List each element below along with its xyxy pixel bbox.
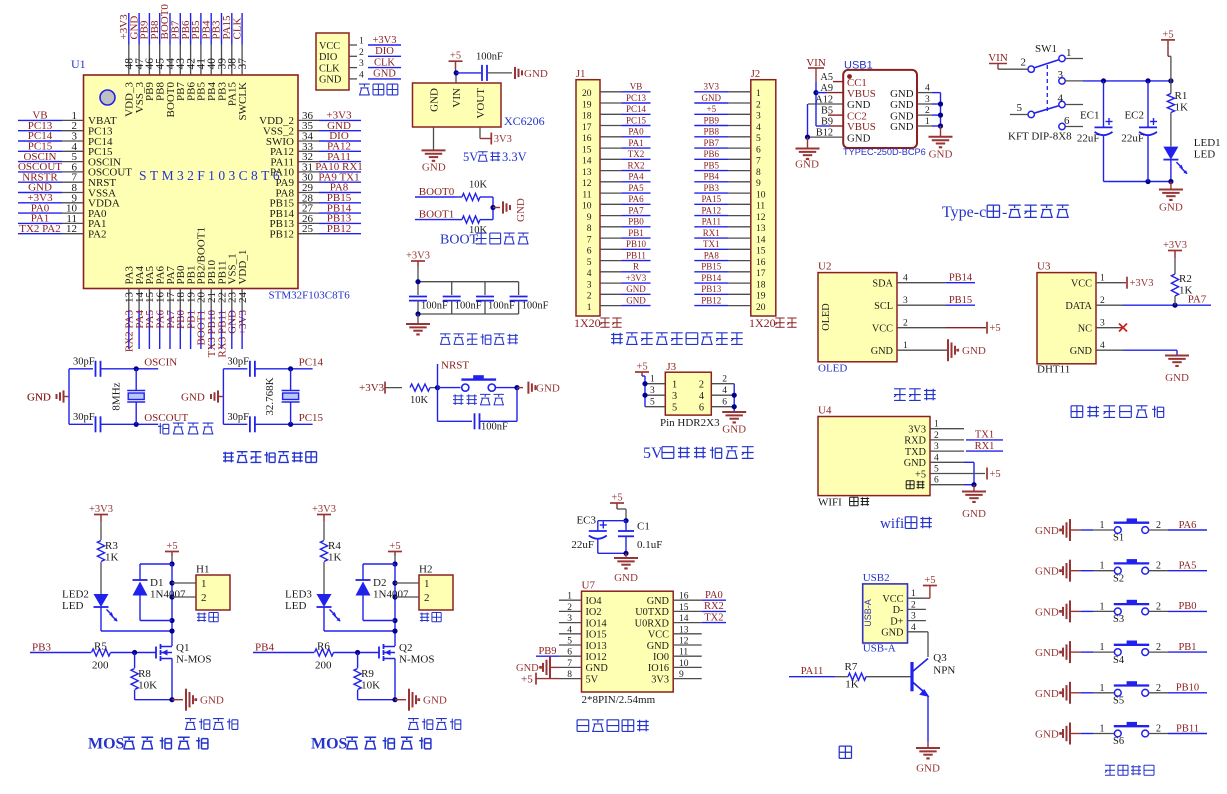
svg-text:LED: LED (62, 600, 83, 612)
svg-text:C1: C1 (637, 521, 650, 533)
svg-text:3V3: 3V3 (908, 425, 926, 436)
svg-text:S5: S5 (1113, 696, 1124, 707)
svg-text:PA15: PA15 (701, 194, 721, 204)
svg-text:PB12: PB12 (270, 229, 294, 241)
svg-text:SCL: SCL (874, 301, 893, 312)
svg-text:R8: R8 (138, 668, 151, 680)
svg-text:PB11: PB11 (626, 250, 646, 260)
svg-text:PA11: PA11 (801, 666, 824, 677)
svg-text:1: 1 (1100, 642, 1105, 653)
svg-text:BOOT: BOOT (440, 233, 479, 248)
svg-text:GND: GND (1035, 729, 1059, 741)
svg-text:DIO: DIO (319, 52, 338, 63)
svg-text:3V3: 3V3 (494, 134, 512, 145)
svg-text:J3: J3 (666, 361, 676, 373)
svg-text:+3V3: +3V3 (1163, 240, 1187, 251)
svg-text:9: 9 (587, 213, 592, 223)
svg-text:2*8PIN/2.54mm: 2*8PIN/2.54mm (582, 694, 656, 706)
svg-text:1: 1 (925, 117, 930, 127)
svg-text:GND: GND (647, 641, 670, 652)
svg-text:1: 1 (934, 420, 939, 430)
svg-text:22uF: 22uF (1077, 133, 1100, 145)
svg-text:MOS: MOS (311, 736, 348, 753)
svg-text:GND: GND (428, 88, 440, 112)
svg-text:2: 2 (934, 431, 939, 441)
svg-text:PB10: PB10 (1176, 683, 1199, 694)
svg-text:VIN: VIN (451, 88, 463, 108)
svg-text:GND: GND (1159, 202, 1183, 214)
svg-text:10K: 10K (410, 395, 429, 406)
svg-text:U3: U3 (1037, 261, 1051, 273)
svg-text:PB3: PB3 (704, 183, 720, 193)
svg-text:+5: +5 (990, 323, 1001, 334)
svg-text:17: 17 (756, 269, 766, 279)
svg-text:TYPEC-250D-BCP6: TYPEC-250D-BCP6 (843, 147, 926, 157)
svg-text:10K: 10K (361, 680, 380, 692)
svg-text:17: 17 (582, 123, 592, 133)
svg-text:PA0: PA0 (705, 590, 723, 601)
svg-text:GND: GND (929, 149, 953, 161)
svg-text:3: 3 (650, 386, 655, 396)
svg-text:5V: 5V (643, 445, 663, 462)
svg-text:GND: GND (1035, 525, 1059, 537)
svg-text:LED: LED (1194, 149, 1215, 161)
svg-text:4: 4 (1100, 341, 1105, 351)
svg-text:RXD: RXD (904, 436, 926, 447)
svg-text:5: 5 (587, 258, 592, 268)
svg-text:BOOT1: BOOT1 (419, 208, 454, 220)
svg-text:GND: GND (1035, 606, 1059, 618)
svg-text:PB8: PB8 (704, 127, 720, 137)
svg-text:+5: +5 (636, 362, 647, 373)
svg-text:WIFI: WIFI (818, 497, 842, 509)
svg-text:R5: R5 (94, 641, 107, 653)
svg-text:EC1: EC1 (1080, 110, 1100, 122)
svg-text:+5: +5 (389, 541, 400, 552)
svg-text:4: 4 (1058, 93, 1064, 105)
svg-text:LED1: LED1 (1194, 137, 1221, 149)
svg-text:100nF: 100nF (522, 301, 549, 312)
svg-text:1: 1 (650, 375, 655, 385)
svg-text:1: 1 (672, 380, 677, 391)
svg-text:TXD: TXD (905, 447, 927, 458)
svg-text:PB3: PB3 (32, 642, 51, 654)
svg-text:2: 2 (587, 292, 592, 302)
svg-text:5: 5 (672, 403, 677, 414)
svg-text:2: 2 (903, 319, 908, 329)
svg-text:PA7: PA7 (628, 205, 644, 215)
svg-text:TX1: TX1 (975, 430, 994, 441)
svg-text:1K: 1K (1175, 102, 1189, 114)
svg-text:TX2: TX2 (704, 612, 723, 623)
svg-text:3: 3 (1100, 319, 1105, 329)
svg-text:2: 2 (911, 600, 916, 610)
svg-text:PB11: PB11 (1176, 723, 1199, 734)
svg-text:GND: GND (515, 198, 527, 222)
svg-text:8: 8 (567, 670, 572, 680)
svg-text:30pF: 30pF (73, 357, 95, 368)
svg-text:2: 2 (699, 380, 704, 391)
svg-text:PB0: PB0 (1178, 601, 1196, 612)
svg-text:1: 1 (911, 589, 916, 599)
svg-text:5: 5 (650, 398, 655, 408)
svg-text:1: 1 (1100, 561, 1105, 572)
svg-text:LED3: LED3 (285, 589, 312, 601)
svg-text:4: 4 (587, 269, 592, 279)
svg-text:EC3: EC3 (576, 515, 596, 527)
svg-text:+5: +5 (166, 541, 177, 552)
svg-text:DATA: DATA (1065, 301, 1092, 312)
svg-text:R7: R7 (845, 661, 858, 673)
svg-text:IO13: IO13 (586, 641, 607, 652)
svg-text:1: 1 (359, 37, 364, 47)
svg-text:8: 8 (587, 224, 592, 234)
svg-text:GND: GND (200, 695, 224, 707)
svg-text:1K: 1K (328, 552, 342, 564)
svg-text:TX2 PA2: TX2 PA2 (19, 223, 60, 235)
svg-text:1X20: 1X20 (574, 316, 601, 330)
svg-text:3: 3 (1058, 69, 1064, 81)
svg-text:NPN: NPN (933, 665, 955, 677)
svg-text:PB5: PB5 (704, 160, 720, 170)
svg-text:10: 10 (756, 190, 766, 200)
svg-text:PB15: PB15 (949, 295, 972, 306)
svg-text:5V: 5V (586, 674, 599, 685)
svg-text:1: 1 (1100, 274, 1105, 284)
svg-text:PB1: PB1 (628, 228, 644, 238)
svg-text:100nF: 100nF (476, 52, 503, 63)
svg-text:IO0: IO0 (653, 652, 669, 663)
svg-text:VCC: VCC (1071, 279, 1092, 290)
svg-text:12: 12 (679, 637, 689, 647)
svg-text:30pF: 30pF (227, 412, 249, 423)
svg-text:GND: GND (524, 68, 548, 80)
svg-text:VB: VB (630, 82, 643, 92)
svg-text:4: 4 (911, 623, 916, 633)
svg-text:MOS: MOS (88, 736, 125, 753)
svg-text:+3V3: +3V3 (406, 251, 430, 262)
svg-text:USB-A: USB-A (863, 599, 873, 627)
svg-text:3: 3 (567, 614, 572, 624)
svg-text:10: 10 (679, 659, 689, 669)
svg-text:+3V3: +3V3 (237, 310, 249, 336)
svg-text:GND: GND (1035, 647, 1059, 659)
svg-text:R2: R2 (1179, 273, 1192, 285)
svg-text:Q1: Q1 (176, 642, 189, 654)
svg-text:100nF: 100nF (455, 301, 482, 312)
svg-text:GND: GND (1165, 372, 1189, 384)
svg-text:R1: R1 (1175, 90, 1188, 102)
svg-text:6: 6 (934, 476, 939, 486)
svg-text:PB12: PB12 (701, 295, 721, 305)
svg-text:PB14: PB14 (949, 273, 973, 284)
svg-text:+3V3: +3V3 (359, 382, 385, 394)
svg-text:GND: GND (1070, 346, 1093, 357)
svg-text:S3: S3 (1113, 614, 1124, 625)
svg-text:25: 25 (302, 223, 314, 235)
svg-text:+3V3: +3V3 (372, 35, 396, 46)
svg-text:RX2: RX2 (704, 601, 724, 612)
svg-text:13: 13 (582, 168, 592, 178)
svg-text:CLK: CLK (374, 57, 395, 68)
svg-text:PA8: PA8 (704, 250, 720, 260)
svg-text:PB7: PB7 (704, 138, 720, 148)
svg-text:IO4: IO4 (586, 596, 602, 607)
svg-text:PA5: PA5 (628, 183, 644, 193)
svg-text:12: 12 (756, 213, 766, 223)
svg-text:RX2: RX2 (627, 160, 644, 170)
svg-text:GND: GND (890, 88, 914, 100)
svg-text:6: 6 (722, 398, 727, 408)
svg-text:+5: +5 (521, 673, 533, 685)
svg-text:PB12: PB12 (327, 223, 351, 235)
svg-text:U7: U7 (582, 580, 596, 592)
svg-text:3: 3 (934, 442, 939, 452)
svg-text:2: 2 (359, 48, 364, 58)
svg-text:OLED: OLED (821, 303, 832, 331)
svg-text:IO2: IO2 (586, 607, 602, 618)
svg-text:TX1: TX1 (703, 239, 720, 249)
svg-text:1X20: 1X20 (749, 316, 776, 330)
svg-text:PB4: PB4 (704, 172, 720, 182)
svg-text:CLK: CLK (231, 17, 243, 39)
svg-text:1: 1 (1066, 47, 1072, 59)
svg-text:Type-c: Type-c (942, 204, 986, 221)
svg-text:GND: GND (626, 284, 646, 294)
svg-text:13: 13 (756, 224, 766, 234)
svg-text:GND: GND (916, 763, 940, 775)
svg-text:+5: +5 (990, 469, 1001, 480)
svg-text:7: 7 (567, 659, 572, 669)
svg-text:STM32F103C8T6: STM32F103C8T6 (139, 168, 283, 183)
svg-text:+3V3: +3V3 (312, 504, 336, 515)
svg-text:2: 2 (1021, 57, 1027, 69)
svg-text:S4: S4 (1113, 655, 1125, 666)
svg-text:6: 6 (567, 648, 572, 658)
svg-text:22uF: 22uF (571, 539, 594, 551)
svg-text:3V3: 3V3 (704, 82, 720, 92)
svg-text:+5: +5 (915, 469, 926, 480)
svg-text:7: 7 (587, 235, 592, 245)
svg-text:3: 3 (672, 391, 677, 402)
svg-text:2: 2 (1100, 296, 1105, 306)
svg-text:H2: H2 (419, 564, 432, 576)
svg-text:GND: GND (702, 93, 722, 103)
svg-text:U4: U4 (818, 405, 832, 417)
svg-text:GND: GND (962, 345, 986, 357)
svg-text:RX1: RX1 (703, 228, 720, 238)
svg-text:S6: S6 (1113, 736, 1124, 747)
svg-text:SWCLK: SWCLK (237, 82, 249, 121)
svg-text:R6: R6 (317, 641, 330, 653)
svg-text:IO15: IO15 (586, 630, 607, 641)
svg-text:VBUS: VBUS (847, 88, 876, 100)
svg-text:PC14: PC14 (299, 356, 324, 368)
svg-text:GND: GND (795, 159, 819, 171)
svg-text:24: 24 (237, 292, 249, 304)
svg-text:PA6: PA6 (628, 194, 644, 204)
svg-text:VCC: VCC (872, 324, 893, 335)
svg-text:D-: D- (893, 605, 904, 616)
svg-text:10: 10 (582, 202, 592, 212)
svg-text:PA2: PA2 (88, 229, 107, 241)
svg-text:PA1: PA1 (628, 138, 643, 148)
svg-text:PB10: PB10 (626, 239, 647, 249)
svg-text:5: 5 (567, 637, 572, 647)
svg-text:3: 3 (587, 280, 592, 290)
svg-text:3: 3 (925, 95, 930, 105)
svg-text:U2: U2 (818, 261, 831, 273)
svg-text:PA5: PA5 (1179, 561, 1197, 572)
svg-text:2: 2 (756, 100, 761, 110)
svg-text:GND: GND (1035, 566, 1059, 578)
svg-text:14: 14 (582, 157, 592, 167)
svg-text:30pF: 30pF (227, 357, 249, 368)
svg-text:H1: H1 (196, 564, 209, 576)
svg-text:IO12: IO12 (586, 652, 607, 663)
svg-text:DIO: DIO (375, 46, 394, 57)
svg-text:11: 11 (756, 202, 765, 212)
svg-text:22uF: 22uF (1121, 133, 1144, 145)
svg-text:SW1: SW1 (1035, 43, 1057, 55)
svg-text:VCC: VCC (648, 630, 669, 641)
svg-text:+3V3: +3V3 (626, 273, 647, 283)
svg-text:11: 11 (679, 648, 688, 658)
svg-text:1: 1 (903, 341, 908, 351)
svg-text:1N4007: 1N4007 (150, 589, 186, 601)
svg-text:J1: J1 (576, 69, 585, 80)
svg-text:GND: GND (373, 69, 396, 80)
svg-text:GND: GND (881, 628, 904, 639)
svg-text:2: 2 (722, 375, 727, 385)
svg-text:PB0: PB0 (628, 217, 644, 227)
svg-text:VIN: VIN (988, 52, 1008, 64)
svg-text:PC15: PC15 (299, 412, 324, 424)
svg-text:4: 4 (756, 123, 761, 133)
svg-text:PA4: PA4 (628, 172, 644, 182)
svg-text:PA11: PA11 (702, 217, 721, 227)
svg-text:OLED: OLED (818, 363, 847, 375)
svg-text:GND: GND (1035, 688, 1059, 700)
svg-text:PB4: PB4 (255, 642, 274, 654)
svg-text:D2: D2 (373, 577, 386, 589)
svg-text:S2: S2 (1113, 573, 1124, 584)
svg-text:1: 1 (1100, 724, 1105, 735)
svg-text:LED2: LED2 (62, 589, 89, 601)
svg-text:+5: +5 (707, 104, 717, 114)
svg-text:wifi: wifi (880, 516, 904, 532)
svg-text:1: 1 (587, 303, 592, 313)
svg-text:6: 6 (587, 247, 592, 257)
svg-text:5: 5 (934, 465, 939, 475)
svg-text:1: 1 (1100, 520, 1105, 531)
svg-text:1: 1 (201, 578, 207, 590)
svg-text:1: 1 (1100, 683, 1105, 694)
svg-text:N-MOS: N-MOS (399, 654, 434, 666)
svg-text:3: 3 (756, 112, 761, 122)
svg-text:GND: GND (626, 295, 646, 305)
svg-text:16: 16 (756, 258, 766, 268)
svg-text:32.768K: 32.768K (264, 377, 276, 415)
svg-text:RX1: RX1 (975, 441, 995, 452)
svg-text:1: 1 (1100, 601, 1105, 612)
svg-text:GND: GND (871, 346, 894, 357)
svg-text:PB6: PB6 (704, 149, 720, 159)
svg-text:100nF: 100nF (481, 422, 508, 433)
svg-text:PB9: PB9 (704, 115, 720, 125)
svg-text:20: 20 (756, 303, 766, 313)
svg-text:A5: A5 (820, 72, 833, 83)
svg-text:+5: +5 (450, 51, 461, 62)
svg-text:2: 2 (424, 592, 430, 604)
svg-text:19: 19 (756, 292, 766, 302)
svg-text:8: 8 (756, 168, 761, 178)
svg-text:9: 9 (679, 670, 684, 680)
svg-text:12: 12 (66, 223, 77, 235)
svg-text:6: 6 (699, 403, 704, 414)
svg-text:S1: S1 (1113, 533, 1124, 544)
svg-text:GND: GND (422, 161, 446, 173)
svg-text:15: 15 (582, 145, 592, 155)
svg-text:9: 9 (756, 179, 761, 189)
svg-text:N-MOS: N-MOS (176, 654, 211, 666)
svg-text:+5: +5 (924, 575, 935, 586)
svg-text:4: 4 (925, 84, 930, 94)
svg-text:CLK: CLK (319, 63, 340, 74)
svg-text:20: 20 (582, 89, 592, 99)
svg-text:4: 4 (722, 386, 727, 396)
svg-text:Q2: Q2 (399, 642, 412, 654)
svg-text:3V3: 3V3 (651, 674, 669, 685)
svg-text:12: 12 (582, 179, 592, 189)
svg-text:TX2: TX2 (628, 149, 645, 159)
svg-text:IO16: IO16 (648, 663, 669, 674)
svg-text:18: 18 (756, 280, 766, 290)
svg-text:200: 200 (92, 660, 109, 672)
svg-text:18: 18 (582, 112, 592, 122)
svg-text:10K: 10K (138, 680, 157, 692)
svg-text:STM32F103C8T6: STM32F103C8T6 (269, 290, 351, 302)
svg-text:Q3: Q3 (933, 652, 947, 664)
svg-text:+5: +5 (611, 493, 622, 504)
svg-text:PC14: PC14 (626, 104, 647, 114)
svg-text:GND: GND (890, 121, 914, 133)
svg-text:5: 5 (756, 134, 761, 144)
svg-text:KFT DIP-8X8: KFT DIP-8X8 (1008, 131, 1072, 143)
svg-text:VDD_1: VDD_1 (237, 250, 249, 285)
svg-text:USB2: USB2 (863, 572, 890, 584)
svg-text:EC2: EC2 (1124, 110, 1144, 122)
svg-text:R9: R9 (361, 668, 374, 680)
svg-text:PB9: PB9 (538, 646, 556, 657)
svg-text:J2: J2 (751, 69, 760, 80)
svg-text:7: 7 (756, 157, 761, 167)
svg-text:15: 15 (756, 247, 766, 257)
svg-text:1: 1 (424, 578, 430, 590)
svg-text:11: 11 (582, 190, 591, 200)
svg-text:SDA: SDA (872, 279, 893, 290)
svg-text:D1: D1 (150, 577, 163, 589)
svg-text:19: 19 (582, 100, 592, 110)
svg-text:USB-A: USB-A (863, 643, 896, 655)
svg-text:1: 1 (567, 592, 572, 602)
svg-text:USB1: USB1 (844, 59, 873, 71)
svg-text:1K: 1K (1179, 285, 1193, 297)
svg-text:GND: GND (423, 695, 447, 707)
svg-text:GND: GND (962, 508, 986, 520)
svg-text:+5: +5 (1162, 29, 1173, 40)
svg-text:6: 6 (756, 145, 761, 155)
